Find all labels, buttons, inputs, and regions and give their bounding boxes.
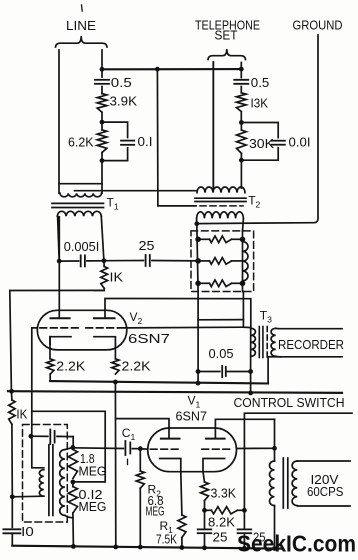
node 30K bottom	[239, 158, 244, 163]
svg-text:SeekIC.com: SeekIC.com	[237, 531, 356, 557]
svg-text:7.5K: 7.5K	[156, 532, 177, 547]
brace TELEPHONE SET	[208, 49, 246, 60]
capacitor 25 (right)	[243, 510, 245, 528]
resistor network R-b	[198, 260, 209, 262]
wire LINE left conductor	[58, 50, 60, 193]
wire top bus	[102, 68, 241, 70]
node bus 25L	[202, 545, 207, 550]
svg-text:6.2K: 6.2K	[68, 135, 94, 150]
svg-text:30K: 30K	[249, 136, 274, 151]
svg-text:8.2K: 8.2K	[208, 515, 235, 530]
svg-text:GROUND: GROUND	[293, 18, 343, 33]
V1 right cathode	[203, 459, 225, 472]
svg-text:0.005I: 0.005I	[64, 239, 100, 254]
resistor 0.12MEG	[72, 482, 74, 487]
node bus-right-T3	[248, 391, 253, 396]
node 0.05-left-bus	[196, 381, 201, 386]
svg-text:0.05: 0.05	[209, 346, 234, 361]
V1 left cathode	[160, 459, 181, 472]
resistor 6.2K	[101, 122, 103, 130]
capacitor 10	[11, 497, 13, 528]
wire T2 primary tap up	[212, 62, 214, 187]
wire T1 sec left down	[58, 216, 60, 261]
svg-text:6SN7: 6SN7	[176, 409, 208, 424]
wire network sub-rung	[198, 319, 243, 321]
capacitor 25 (left)	[204, 510, 206, 528]
node 1.8MEG top	[71, 445, 76, 450]
wire transformer primary top	[274, 419, 276, 448]
wire to T2 primary right	[240, 160, 242, 188]
resistor 1K (top)	[103, 261, 105, 267]
input transformer primary	[32, 436, 44, 468]
svg-text:25: 25	[213, 530, 228, 545]
svg-text:0.5: 0.5	[111, 75, 132, 90]
shield box network	[191, 231, 254, 292]
wire T3 top jog	[243, 326, 250, 328]
wire T3 sec bottom to bus	[267, 357, 269, 384]
node Rc right	[240, 281, 246, 287]
resistor 3.3K	[203, 472, 205, 482]
resistor 2.2K left	[47, 359, 54, 374]
resistor network R-c	[198, 282, 209, 284]
resistor R1 7.5K	[181, 472, 182, 515]
stray tick mark	[81, 5, 84, 11]
node Ra left	[195, 237, 201, 243]
node balance cap left	[29, 434, 34, 439]
node primary bottom-left	[10, 494, 15, 499]
svg-text:2.2K: 2.2K	[122, 359, 151, 374]
wire T2 sec left lead	[196, 218, 198, 223]
svg-text:MEG: MEG	[79, 499, 107, 514]
node Rb left	[195, 258, 201, 264]
wire 120V bottom lead	[297, 505, 350, 507]
resistor 1K (left)	[10, 391, 13, 400]
node 0.05 right	[248, 369, 253, 374]
node 6.2K bottom	[100, 158, 105, 163]
node 3.9K bottom	[100, 120, 105, 125]
input transformer secondary	[65, 447, 73, 449]
wire network left vertical	[197, 224, 198, 292]
wire grid line horizontal	[59, 260, 78, 262]
svg-text:RECORDER: RECORDER	[278, 337, 344, 352]
resistor 2.2K right	[112, 359, 119, 374]
node Rc left	[195, 281, 201, 287]
svg-text:MEG: MEG	[79, 464, 107, 479]
wire T2 sec right lead	[242, 218, 245, 231]
wire T1 to T2 primary	[75, 190, 198, 192]
node cathode-right	[113, 380, 118, 385]
transformer T2 primary	[197, 187, 245, 193]
node bus R1	[180, 545, 185, 550]
node C1-R2-grid	[138, 446, 143, 451]
wire bottom bus	[12, 546, 281, 549]
svg-text:2.2K: 2.2K	[56, 359, 85, 374]
node bus R2	[138, 545, 143, 550]
node T2 sec left	[194, 221, 199, 226]
wire control switch lower bus	[244, 413, 352, 510]
node bus-left	[9, 389, 14, 394]
V1 left grid	[150, 448, 178, 450]
capacitor 25 (coupling)	[145, 255, 147, 266]
resistor 13K	[237, 93, 247, 112]
node phone-right	[239, 67, 244, 72]
V2 right cathode	[94, 337, 115, 344]
power transformer primary	[274, 448, 276, 461]
tube V2 envelope	[37, 310, 127, 350]
transformer T3 secondary	[271, 328, 276, 356]
wire network right lower	[242, 292, 244, 328]
wire recorder top	[276, 327, 342, 329]
svg-text:MEG: MEG	[146, 504, 165, 519]
wire V2 grid branch	[32, 411, 105, 482]
transformer T2 core	[195, 197, 246, 199]
wire to 25 cap	[104, 260, 143, 262]
wire long bus	[8, 391, 342, 393]
V1 left plate	[116, 419, 169, 439]
shield dashed line T2	[200, 205, 243, 207]
node bus xfmr	[272, 546, 277, 551]
svg-text:0.I: 0.I	[138, 134, 153, 149]
node primary top	[272, 446, 277, 451]
V2 left plate	[58, 217, 60, 318]
wire T1 sec right down	[101, 216, 104, 260]
wire 120V top lead	[297, 460, 350, 462]
wire T3 primary lower	[250, 328, 252, 372]
wire ground lead	[197, 35, 318, 224]
wire to T1	[101, 161, 103, 194]
node 8.2K right	[242, 508, 247, 513]
V1 right plate	[215, 419, 274, 438]
svg-text:CONTROL SWITCH: CONTROL SWITCH	[234, 395, 345, 410]
transformer T1 core	[52, 202, 104, 204]
resistor 8.2K horizontal	[205, 509, 212, 511]
V2 right grid	[86, 327, 118, 329]
wire plate bus	[105, 299, 251, 328]
node 0.05 left	[196, 369, 201, 374]
resistor 30K	[240, 123, 242, 131]
svg-text:SET: SET	[215, 28, 238, 43]
svg-text:3.3K: 3.3K	[211, 486, 237, 501]
svg-text:6SN7: 6SN7	[128, 331, 170, 346]
capacitor 0.05	[198, 371, 220, 373]
node 1.8/0.12 junction	[71, 480, 76, 485]
wire coupling vertical	[114, 382, 116, 547]
wire network left lower	[197, 292, 199, 384]
resistor 1.8MEG	[68, 450, 77, 479]
svg-text:60CPS: 60CPS	[307, 484, 344, 499]
wire recorder bottom	[276, 355, 342, 358]
shield box (input transformer)	[23, 425, 68, 523]
svg-text:3.9K: 3.9K	[110, 94, 138, 109]
node Ra right	[240, 237, 246, 243]
node line-right	[100, 67, 105, 72]
tube V1 envelope	[148, 428, 237, 472]
wire 10 cap to bus	[12, 533, 73, 546]
wire bias horizontal	[10, 290, 104, 391]
brace LINE	[56, 36, 108, 47]
transformer T2 secondary	[197, 212, 244, 219]
wire network right vertical	[242, 231, 244, 292]
power transformer core	[282, 458, 284, 508]
node 0.0051 left	[57, 259, 62, 264]
wire cathode bus	[50, 381, 268, 383]
transformer T3 core	[258, 327, 260, 358]
V2 right plate	[94, 317, 115, 319]
V1 right grid	[202, 448, 233, 450]
power transformer secondary	[292, 461, 297, 506]
node mid tap	[155, 67, 160, 72]
resistor 3.9K	[97, 94, 107, 113]
node 1K top	[102, 258, 107, 263]
svg-text:25: 25	[139, 238, 155, 253]
capacitor 0.5 (right)	[234, 79, 248, 81]
resistor R2 6.8MEG	[139, 449, 141, 471]
capacitor (balance, in box)	[32, 435, 48, 437]
input transformer core	[48, 445, 50, 516]
node bus xfmr-sec	[71, 544, 76, 549]
capacitor 0.1 branch	[102, 122, 128, 161]
svg-text:0.0I: 0.0I	[289, 135, 311, 150]
node 3.3K bottom	[202, 508, 207, 513]
wire LINE right conductor	[101, 50, 103, 69]
svg-text:0.5: 0.5	[251, 75, 269, 90]
wire telephone set right	[240, 63, 242, 70]
resistor network R-a	[198, 238, 209, 240]
V2 left grid	[40, 327, 80, 329]
wire chain left	[101, 69, 103, 77]
capacitor 0.5 (left)	[95, 79, 109, 81]
svg-text:IK: IK	[16, 407, 27, 422]
node bus coupling	[113, 545, 118, 550]
svg-text:LINE: LINE	[66, 18, 96, 33]
transformer T1 primary	[59, 183, 102, 185]
capacitor 0.01 branch	[241, 123, 278, 161]
V2 left cathode	[50, 337, 71, 344]
inductor network winding	[243, 242, 249, 281]
wire telephone set left	[212, 62, 214, 188]
svg-text:I3K: I3K	[251, 96, 269, 111]
capacitor 0.0051	[80, 255, 82, 266]
svg-text:IK: IK	[110, 270, 124, 285]
transformer T1 secondary	[57, 211, 101, 216]
wire cap right down	[72, 437, 74, 448]
wire chain right	[240, 69, 242, 77]
capacitor C1	[73, 447, 123, 450]
transformer T3 primary	[251, 328, 256, 356]
svg-text:I0: I0	[21, 524, 34, 539]
wire shield tap	[157, 69, 196, 206]
node bus 25R	[242, 546, 247, 551]
node 13K bottom	[239, 120, 244, 125]
